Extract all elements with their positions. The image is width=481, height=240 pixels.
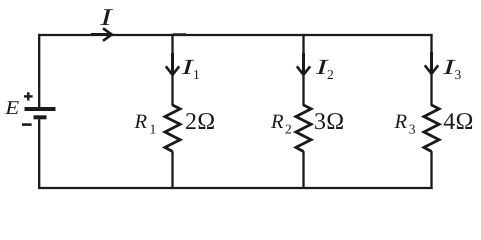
label I1 bbox=[180, 55, 200, 82]
svg-text:R: R bbox=[270, 111, 284, 133]
svg-text:E: E bbox=[4, 98, 19, 119]
label I3 bbox=[441, 55, 461, 82]
wire right upper bbox=[430, 34, 432, 106]
wire branch 2 upper bbox=[302, 34, 304, 106]
svg-text:1: 1 bbox=[193, 67, 200, 82]
svg-text:1: 1 bbox=[150, 121, 157, 136]
battery E bbox=[25, 109, 56, 117]
wire top bbox=[38, 34, 433, 36]
battery minus sign bbox=[22, 123, 32, 126]
label I2 bbox=[314, 55, 333, 82]
current arrow I2 bbox=[297, 53, 310, 75]
current arrow I bbox=[91, 28, 112, 41]
label R2 bbox=[270, 111, 292, 136]
wire branch 1 upper bbox=[171, 34, 173, 106]
svg-text:4Ω: 4Ω bbox=[443, 109, 473, 135]
resistor R2 bbox=[296, 105, 311, 152]
current arrow I3 bbox=[425, 52, 438, 74]
wire left lower (from battery) bbox=[38, 119, 40, 189]
wire top scan artifact at branch 1 junction bbox=[173, 33, 186, 35]
wire branch 2 lower bbox=[302, 151, 304, 189]
svg-text:3Ω: 3Ω bbox=[314, 109, 344, 135]
svg-text:R: R bbox=[134, 111, 148, 133]
wire right lower bbox=[430, 151, 432, 189]
svg-text:2Ω: 2Ω bbox=[185, 109, 215, 135]
svg-text:3: 3 bbox=[455, 67, 462, 82]
wire left upper (to battery) bbox=[38, 34, 40, 107]
label R1 bbox=[134, 111, 157, 136]
svg-text:3: 3 bbox=[409, 121, 416, 136]
svg-text:I: I bbox=[99, 5, 113, 31]
wire branch 1 lower bbox=[171, 151, 173, 189]
svg-text:2: 2 bbox=[327, 67, 334, 82]
battery plus sign bbox=[24, 92, 33, 100]
svg-text:R: R bbox=[394, 111, 408, 133]
resistor R3 bbox=[424, 105, 439, 152]
svg-text:2: 2 bbox=[285, 121, 292, 136]
resistor R1 bbox=[165, 105, 180, 152]
label R3 bbox=[394, 111, 416, 136]
current arrow I1 bbox=[166, 53, 179, 75]
wire bottom bbox=[38, 187, 433, 189]
